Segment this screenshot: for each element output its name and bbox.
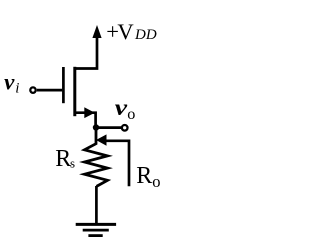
transistor M1 gate bar xyxy=(62,67,65,103)
output node wire xyxy=(96,126,121,129)
input terminal circle xyxy=(30,87,35,92)
svg-text:DD: DD xyxy=(134,27,157,43)
power supply +VDD arrow xyxy=(75,25,102,69)
svg-text:v: v xyxy=(115,95,128,120)
source wire with arrow xyxy=(75,107,96,127)
wire resistor to ground xyxy=(95,186,98,225)
svg-text:o: o xyxy=(127,105,135,123)
output terminal circle xyxy=(122,125,128,131)
gate wire xyxy=(37,89,62,92)
svg-text:v: v xyxy=(4,70,15,95)
svg-text:V: V xyxy=(117,19,134,44)
Ro arrow pointing into source node xyxy=(96,134,129,186)
svg-text:s: s xyxy=(70,155,75,170)
junction dot node S xyxy=(93,124,99,130)
svg-text:o: o xyxy=(152,172,160,191)
transistor M1 channel bar xyxy=(73,67,76,116)
resistor RS zigzag xyxy=(85,129,108,186)
svg-text:R: R xyxy=(55,146,71,172)
svg-text:R: R xyxy=(136,163,152,189)
svg-text:i: i xyxy=(15,80,19,96)
ground xyxy=(76,224,116,235)
